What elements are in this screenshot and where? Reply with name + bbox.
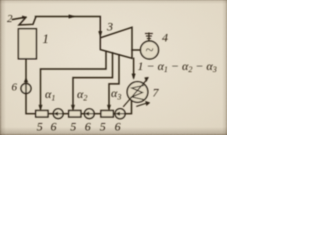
extraction line alpha2 — [73, 53, 113, 109]
valve 2 — [13, 16, 36, 25]
generator 4 — [141, 33, 159, 59]
svg-text:2: 2 — [7, 13, 13, 25]
arrow on steam line — [69, 15, 76, 18]
svg-text:~: ~ — [145, 43, 153, 59]
svg-text:6: 6 — [85, 119, 91, 133]
pump 6 (third) — [115, 109, 125, 119]
extraction line alpha1 — [41, 51, 107, 108]
exhaust line to condenser — [133, 58, 135, 77]
wire: feed water line — [26, 59, 125, 114]
svg-text:5: 5 — [100, 119, 106, 133]
pump 6 (second) — [84, 109, 94, 119]
svg-text:6: 6 — [51, 119, 57, 133]
boiler 1 — [18, 29, 36, 59]
turbine 3 — [100, 27, 132, 58]
feed pump 6 (boiler) — [21, 78, 31, 94]
pump 6 (first) — [53, 109, 63, 119]
svg-text:7: 7 — [153, 86, 160, 100]
wire: main steam line boiler to turbine — [36, 17, 101, 37]
svg-text:1 − α1 − α2 − α3: 1 − α1 − α2 − α3 — [138, 59, 217, 74]
heater 5 (third) — [101, 111, 113, 118]
condenser 7 — [124, 77, 151, 106]
svg-text:5: 5 — [37, 119, 43, 133]
svg-text:4: 4 — [162, 31, 168, 45]
wire: condensate line condenser to feed line — [125, 101, 132, 114]
svg-text:3: 3 — [106, 20, 113, 34]
arrow into turbine — [99, 32, 102, 38]
svg-text:1: 1 — [43, 32, 49, 46]
heater 5 (second) — [69, 111, 81, 118]
svg-text:6: 6 — [115, 119, 121, 133]
svg-text:6: 6 — [12, 82, 18, 94]
wire: turbine shaft to generator — [132, 49, 141, 51]
svg-text:5: 5 — [70, 119, 76, 133]
heater 5 (first) — [36, 111, 48, 118]
extraction line alpha3 — [109, 55, 119, 109]
